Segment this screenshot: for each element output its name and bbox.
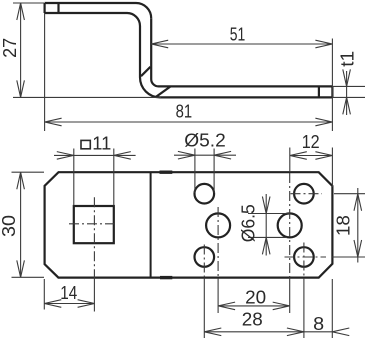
- dimension 30 label: [0, 215, 19, 237]
- dimension 81 arrow right: [315, 118, 332, 126]
- wire chamfer projection line left tab: [57, 3, 59, 13]
- wire bottom flange top edge: [159, 85, 333, 87]
- wire thick bend mark top edge: [160, 170, 173, 173]
- wire bend zone diagonal across web: [141, 67, 150, 76]
- dimension 18 line: [357, 188, 359, 263]
- svg-text:t1: t1: [337, 51, 357, 67]
- dimension t1 line: [346, 71, 348, 115]
- dimension t1 label: [337, 51, 357, 67]
- dimension 81 line: [45, 121, 333, 123]
- dimension dia-5.2 extension line left: [194, 149, 196, 194]
- svg-text:51: 51: [230, 25, 246, 45]
- plate outline with chamfered corners: [45, 172, 333, 277]
- dimension 18 arrow down: [354, 240, 362, 257]
- centerline bottom right hole vertical: [303, 243, 305, 339]
- dimension 12 line: [290, 155, 333, 157]
- dimension 12 extension line right: [331, 148, 333, 188]
- dimension 12 arrow left: [290, 152, 307, 160]
- dimension dia-5.2 extension line right: [213, 149, 215, 194]
- svg-text:Ø6.5: Ø6.5: [239, 204, 259, 242]
- hole top right 5.2: [294, 184, 314, 204]
- centerline middle left hole vertical: [217, 207, 219, 313]
- dimension square-11 extension line left: [73, 149, 75, 206]
- hole bottom right 5.2: [294, 247, 314, 267]
- dimension 8 label: [313, 314, 324, 334]
- svg-text:18: 18: [334, 215, 354, 236]
- hole middle left 6.5: [206, 213, 230, 237]
- dimension dia-6.5 extension line top: [248, 213, 290, 215]
- dimension 12 extension line left: [289, 148, 291, 173]
- svg-text:11: 11: [92, 133, 111, 153]
- svg-text:27: 27: [0, 38, 20, 58]
- dimension t1 arrow down: [343, 69, 351, 86]
- wire top flange top edge with outer bend radius: [45, 3, 152, 18]
- centerline middle right hole vertical: [289, 173, 291, 313]
- wire bend line projection: [150, 172, 152, 277]
- centerline top right hole horizontal: [291, 193, 365, 195]
- dimension 28 label: [242, 310, 263, 330]
- dimension 20 arrow right: [273, 302, 290, 310]
- dimension dia-6.5 line: [265, 194, 267, 256]
- dimension 27 extension line top: [13, 2, 44, 4]
- dimension 20 label: [245, 287, 266, 307]
- dimension dia-5.2 line: [174, 154, 236, 156]
- dimension t1 extension line bottom: [332, 96, 365, 98]
- dimension 30 extension line top: [12, 171, 45, 173]
- wire chamfer projection line right end: [318, 86, 320, 97]
- dimension 51 arrow left: [151, 40, 168, 48]
- dimension 12 label: [302, 132, 320, 152]
- dimension t1 arrow up: [343, 97, 351, 114]
- wire bottom flange bottom edge: [160, 96, 332, 98]
- dimension dia-6.5 arrow up: [262, 237, 270, 254]
- dimension 28 arrow left: [204, 328, 221, 336]
- dimension square-11 arrow left: [114, 152, 131, 160]
- dimension 51 arrow right: [315, 40, 332, 48]
- dimension 30 arrow down: [17, 260, 25, 277]
- dimension 14 arrow left: [44, 300, 61, 308]
- dimension 27 arrow down: [17, 80, 25, 97]
- dimension 30 line: [20, 172, 22, 277]
- wire web right edge with lower inner bend radius: [151, 18, 158, 86]
- dimension 81 extension line left: [44, 13, 46, 131]
- svg-text:14: 14: [60, 283, 77, 303]
- dimension 28 arrow right shared with 8: [287, 328, 304, 336]
- dimension 20 arrow left: [218, 302, 235, 310]
- dimension 14 label: [60, 283, 77, 303]
- dimension square-11 extension line right: [113, 149, 115, 206]
- dimension 14 extension line left: [43, 279, 45, 310]
- dimension 30 extension line bottom: [12, 276, 45, 278]
- dimension dia-6.5 label: [239, 204, 259, 242]
- dimension dia-6.5 arrow down: [262, 197, 270, 214]
- centerline square hole vertical: [93, 197, 95, 311]
- centerline bottom right hole horizontal: [285, 256, 365, 258]
- dimension dia-5.2 label: [184, 130, 226, 150]
- dimension 8 arrow left pointing: [332, 328, 349, 336]
- square hole 11: [74, 206, 114, 243]
- dimension 81 extension line right: [331, 39, 333, 132]
- wire top flange bottom edge with inner bend radius: [45, 13, 140, 26]
- dimension dia-6.5 extension line bottom: [248, 236, 287, 238]
- dimension 27 extension line bottom: [13, 96, 161, 98]
- dimension 18 label: [334, 215, 354, 236]
- dimension 81 label: [176, 101, 193, 121]
- dimension 12 arrow right: [315, 152, 332, 160]
- dimension dia-5.2 arrow left: [214, 151, 231, 159]
- dimension 14 arrow right: [78, 300, 95, 308]
- wire bend zone diagonal across bottom flange: [156, 86, 171, 97]
- svg-text:Ø5.2: Ø5.2: [184, 130, 226, 150]
- svg-text:20: 20: [245, 287, 266, 307]
- dimension t1 extension line top: [332, 85, 365, 87]
- dimension square-11 square symbol: [81, 140, 90, 148]
- wire thick bend mark bottom edge: [160, 276, 172, 279]
- dimension 14 line: [44, 303, 94, 305]
- dimension 81 arrow left: [45, 118, 62, 126]
- hole top left 5.2: [195, 184, 215, 204]
- dimension 30 arrow up: [17, 172, 25, 189]
- dimension 18 arrow up: [354, 194, 362, 211]
- svg-text:8: 8: [313, 314, 324, 334]
- wire web left edge with lower outer bend radius: [140, 26, 160, 97]
- dimension square-11 label: [92, 133, 111, 153]
- centerline bottom left hole vertical: [203, 245, 205, 339]
- dimension 20 line: [218, 305, 290, 307]
- dimension 51 line: [151, 43, 332, 45]
- centerline square hole horizontal: [69, 223, 117, 225]
- dimension 51 label: [230, 25, 246, 45]
- svg-text:81: 81: [176, 101, 193, 121]
- hole bottom left 5.2: [195, 247, 215, 267]
- dimension dia-5.2 arrow right: [178, 151, 195, 159]
- dimension square-11 line: [54, 154, 136, 156]
- dimension 28 line: [204, 331, 332, 333]
- svg-text:28: 28: [242, 310, 263, 330]
- svg-text:30: 30: [0, 215, 19, 237]
- wire top flange left end edge: [43, 3, 45, 13]
- svg-text:12: 12: [302, 132, 320, 152]
- dimension 8 extension line right: [331, 279, 333, 338]
- dimension 27 label: [0, 38, 20, 58]
- wire bottom flange right end edge: [331, 86, 333, 97]
- dimension 27 line: [20, 3, 22, 97]
- dimension square-11 arrow right: [57, 152, 74, 160]
- dimension 27 arrow up: [17, 3, 25, 20]
- hole middle right 6.5: [278, 213, 302, 237]
